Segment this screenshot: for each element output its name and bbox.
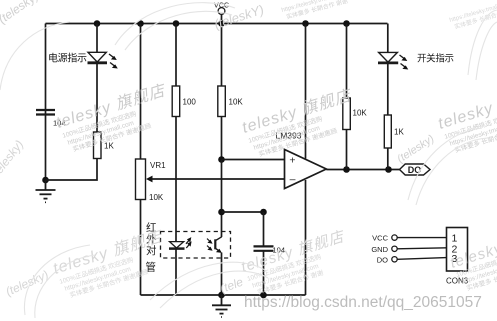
resistor R 1K (power LED): [94, 132, 115, 159]
phototransistor Q1: [207, 237, 222, 253]
svg-text:VCC: VCC: [372, 234, 388, 243]
node output junction pullup: [343, 166, 350, 173]
junction on top rail at pullup 10K: [343, 20, 350, 27]
connector CON3: [371, 228, 468, 286]
svg-text:VR1: VR1: [150, 161, 166, 170]
node cap top junction: [260, 209, 267, 216]
capacitor C 104 (left): [36, 110, 66, 128]
resistor R 10K pullup: [343, 98, 368, 130]
watermark script mid-left edge: [0, 137, 26, 181]
watermark telesky block bottom-left: [51, 227, 173, 302]
op-amp U1 LM393: [276, 131, 327, 189]
wire 1K to output: [387, 148, 389, 170]
watermark telesky block center: [240, 86, 362, 161]
wire opamp ground to bottom rail: [305, 180, 307, 295]
wire IR LED to bottom rail: [175, 249, 177, 295]
label 红外对管: [146, 221, 158, 274]
watermark telesky block left: [54, 81, 176, 156]
wire R 100 column from rail: [175, 24, 177, 87]
junction on top rail at VR1: [137, 20, 144, 27]
node emitter ground junction: [218, 292, 225, 299]
resistor R 1K output: [384, 115, 404, 148]
svg-text:10K: 10K: [149, 193, 164, 202]
capacitor C 104 (filter): [254, 212, 286, 295]
IR LED emitter diode: [169, 237, 192, 249]
junction on top rail at opamp power line: [302, 20, 309, 27]
watermark small lines top-far-right: [449, 0, 497, 32]
wire left column down to cap: [45, 24, 47, 181]
junction on top rail at R 10K: [218, 20, 225, 27]
wire VR1 wiper to opamp minus input: [152, 178, 285, 180]
resistor R 100: [172, 86, 196, 117]
svg-text:DO: DO: [408, 165, 422, 175]
svg-text:DO: DO: [377, 255, 388, 264]
wire bottom ground rail: [141, 294, 306, 296]
wire pullup to output: [346, 130, 348, 170]
svg-text:100: 100: [183, 98, 197, 107]
wire LED to 1K: [387, 63, 389, 115]
watermark script bottom-center: [218, 275, 245, 296]
svg-text:GND: GND: [371, 245, 388, 254]
wire plus node to opamp plus input: [222, 159, 285, 161]
wire VR1 column from rail: [140, 24, 142, 160]
watermark telesky block bottom-center tail: [239, 228, 354, 299]
port DO output flag: [400, 164, 431, 175]
node cap ground junction: [260, 292, 267, 299]
wire collector node to cap: [222, 211, 264, 213]
potentiometer VR1 10K: [136, 159, 167, 202]
node plus input junction: [218, 156, 225, 163]
svg-text:10K: 10K: [353, 109, 368, 118]
svg-text:电源指示: 电源指示: [48, 52, 87, 65]
watermark script top-left: [0, 0, 41, 26]
watermark telesky block bottom-right: [448, 224, 497, 295]
wire R 10K column from rail: [221, 24, 223, 87]
watermark telesky block right: [436, 82, 497, 157]
node VCC terminal: [214, 1, 229, 24]
junction on top rail at power LED: [94, 20, 101, 27]
wire R100 down to IR LED: [175, 117, 177, 242]
ground (bottom): [212, 295, 231, 317]
wire switch LED column: [387, 24, 389, 53]
svg-text:https://blog.csdn.net/qq_20651: https://blog.csdn.net/qq_20651057: [244, 294, 482, 311]
watermark script right: [395, 133, 437, 166]
LED D2 switch indicator: [378, 52, 408, 69]
svg-text:1K: 1K: [394, 128, 404, 137]
dashed box IR pair: [161, 232, 231, 259]
wire 10K to plus node: [221, 117, 223, 160]
wire plus node down to phototransistor: [221, 160, 223, 238]
wire phototransistor emitter to bottom rail: [221, 253, 223, 296]
wire opamp power from top rail: [305, 24, 307, 159]
wire VR1 bottom to bottom rail: [140, 200, 142, 296]
svg-text:开关指示: 开关指示: [417, 53, 454, 65]
wire opamp output: [326, 169, 399, 171]
svg-text:10K: 10K: [229, 98, 244, 107]
wire R1 bottom to ground node: [46, 159, 98, 181]
ground (left): [36, 180, 56, 202]
svg-text:+: +: [289, 154, 295, 166]
node output junction LED: [385, 166, 392, 173]
LED D1 power indicator: [88, 52, 118, 68]
wire LED to R1: [96, 63, 98, 132]
watermark script top-center: [212, 2, 265, 32]
wire VCC top rail: [46, 23, 388, 25]
junction ground node left: [42, 177, 49, 184]
wire power LED column: [96, 24, 98, 53]
watermark script bottom-left: [4, 268, 51, 299]
junction on top rail at R 100: [173, 20, 180, 27]
svg-text:–: –: [290, 173, 296, 185]
watermark small lines top-right: [281, 0, 349, 22]
wire pullup 10K column: [346, 24, 348, 99]
resistor R 10K (phototransistor pullup): [218, 86, 244, 117]
node collector junction: [218, 209, 225, 216]
